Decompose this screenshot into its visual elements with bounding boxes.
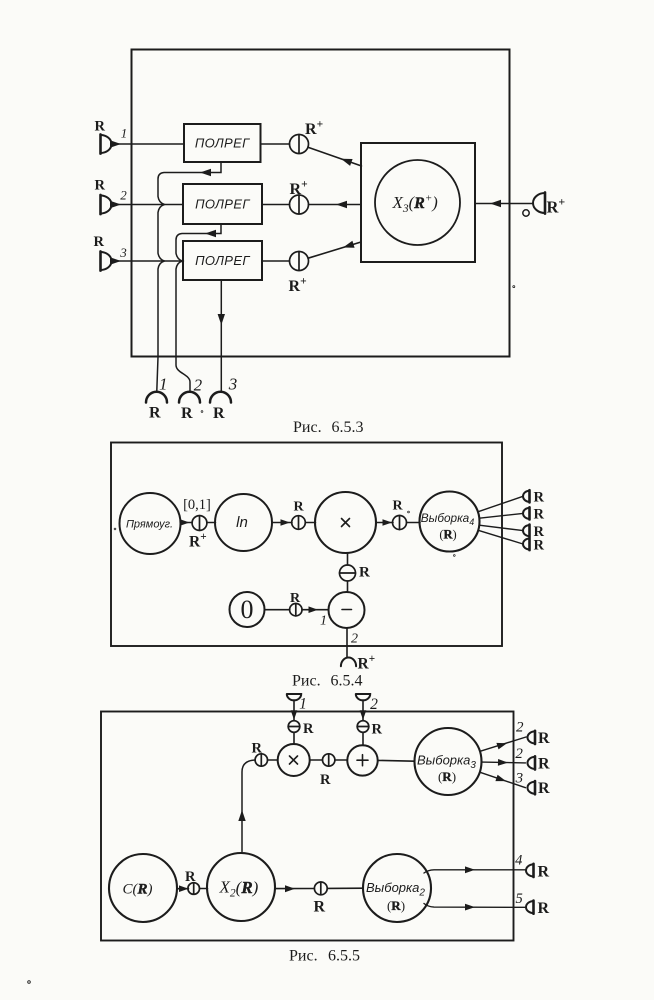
outer frame of fig 6.5.3 <box>132 50 510 357</box>
svg-text:R: R <box>314 899 326 916</box>
node circle o <box>523 210 529 216</box>
wire X2 up branch <box>242 760 255 852</box>
junction circle mid top <box>323 754 335 766</box>
svg-text:R: R <box>290 591 301 606</box>
svg-text:R: R <box>372 722 383 738</box>
svg-text:R: R <box>534 490 545 506</box>
junction circle after X2 <box>314 882 327 895</box>
block Vyborka3 circle <box>415 728 482 795</box>
junction circle T1 <box>288 721 300 733</box>
arrow feedback box2 <box>205 230 216 237</box>
wire fan4-1 <box>478 496 523 512</box>
wire fan3-1 <box>480 737 526 751</box>
junction circle minus-R <box>340 565 356 581</box>
wire T2 to plus <box>362 732 364 745</box>
svg-text:1: 1 <box>320 614 327 629</box>
output horn 2 bottom <box>179 392 200 403</box>
block minus circle <box>329 592 365 628</box>
svg-text:2: 2 <box>351 632 358 647</box>
svg-text:R: R <box>95 119 106 135</box>
block Vyborka2 circle <box>363 854 431 922</box>
output horn fan4-2 <box>523 507 530 519</box>
svg-text:R: R <box>538 755 550 772</box>
arrow fan2-2 <box>465 904 475 911</box>
block X3 circle <box>375 160 460 245</box>
wire to vyborka2 <box>327 887 363 889</box>
svg-text:R: R <box>185 869 196 885</box>
svg-text:3: 3 <box>119 245 127 260</box>
output horn fan3-3 <box>528 781 536 794</box>
speck between bottom R2 R3 <box>201 411 203 413</box>
svg-text:Выборка4: Выборка4 <box>421 511 474 527</box>
svg-text:3: 3 <box>515 771 524 787</box>
arrow row1 input <box>110 140 121 147</box>
svg-text:ln: ln <box>236 514 248 531</box>
block POLREG-3 <box>183 241 262 280</box>
junction circle 01 <box>192 516 207 531</box>
wire box3 to circle3 <box>262 260 290 262</box>
svg-text:R: R <box>181 405 193 422</box>
wire 01 to ln <box>207 522 216 524</box>
svg-text:3: 3 <box>228 375 238 394</box>
arrow ln out <box>281 519 291 526</box>
svg-text:R: R <box>303 721 314 737</box>
output horn fan4-4 <box>523 538 530 550</box>
svg-text:R: R <box>294 500 305 515</box>
svg-text:2: 2 <box>120 188 127 203</box>
input horn R row2 <box>101 195 112 214</box>
block plus circle <box>347 745 377 775</box>
block POLREG-1 <box>184 124 261 162</box>
svg-text:R: R <box>149 404 161 421</box>
junction circle left top <box>255 754 267 766</box>
wire fan2-2 <box>424 904 525 908</box>
wire X3 to circle2 <box>309 204 362 206</box>
junction circle row2 <box>290 195 309 214</box>
svg-text:R: R <box>95 178 106 194</box>
junction circle after zero <box>290 604 302 616</box>
arrow into frame 1 <box>291 710 298 720</box>
arrow fan2-1 <box>465 866 475 873</box>
arrow pryamoug out <box>180 519 190 526</box>
svg-text:R: R <box>359 565 370 581</box>
arrow into frame 2 <box>360 710 367 720</box>
svg-text:4: 4 <box>515 853 522 869</box>
svg-text:R: R <box>534 507 545 523</box>
output horn 3 bottom <box>210 392 231 403</box>
output horn fan2-1 <box>526 864 533 877</box>
svg-text:R: R <box>538 900 550 917</box>
arrow mult out <box>383 519 393 526</box>
wire mult out <box>376 522 393 524</box>
svg-text:[0,1]: [0,1] <box>183 497 211 513</box>
block multiply small circle <box>278 744 310 776</box>
speck above vyborka4 <box>408 511 410 513</box>
wire fan2-1 <box>424 870 525 873</box>
wire feedback box2 <box>176 224 221 391</box>
label plus sign <box>357 755 368 766</box>
arrow X2 out <box>285 885 295 892</box>
svg-text:2: 2 <box>515 746 523 762</box>
wire C out <box>177 888 189 890</box>
wire row2 input <box>112 204 184 206</box>
wire ln out <box>272 522 292 524</box>
wire to X2 <box>200 888 208 890</box>
wire X3 to circle1 <box>308 147 362 166</box>
block multiply circle <box>315 492 376 553</box>
arrow feedback box1 <box>200 169 211 176</box>
input horn R row1 <box>101 134 112 153</box>
svg-text:1: 1 <box>121 126 128 141</box>
wire mid to plus <box>335 759 347 761</box>
wire leftjunc to x <box>268 759 278 761</box>
arrow row2 input <box>110 201 121 208</box>
wire x to mid <box>310 759 323 761</box>
arrow fan3-2 <box>498 759 508 766</box>
svg-text:R: R <box>534 537 545 553</box>
svg-text:R: R <box>538 730 550 747</box>
outer frame of fig 6.5.5 <box>101 712 514 941</box>
wire box2 to circle2 <box>262 204 290 206</box>
arrow to circle2 <box>336 201 347 208</box>
svg-text:5: 5 <box>515 891 522 907</box>
label small x <box>290 756 298 764</box>
wire pryamoug out <box>181 522 193 524</box>
arrow up branch <box>238 810 245 821</box>
svg-text:ПОЛРЕГ: ПОЛРЕГ <box>195 136 250 151</box>
wire feedback box1 <box>157 162 221 391</box>
svg-text:2: 2 <box>516 720 524 736</box>
wire mult down <box>347 553 349 565</box>
svg-text:C(R): C(R) <box>123 882 153 898</box>
output horn fan3-1 <box>528 731 536 744</box>
svg-text:R: R <box>213 405 225 422</box>
label minus sign <box>342 609 352 611</box>
svg-text:R: R <box>252 741 263 757</box>
svg-text:1: 1 <box>159 375 168 394</box>
input horn 1 top <box>287 694 301 700</box>
label multiply x <box>342 519 350 527</box>
arrow row3 input <box>110 257 121 264</box>
arrow to circle1 <box>341 159 353 166</box>
wire box1 to circle1 <box>261 143 290 145</box>
svg-text:(R): (R) <box>439 528 456 542</box>
wire from horn2 <box>362 700 364 720</box>
junction circle after C <box>188 883 200 895</box>
svg-text:ПОЛРЕГ: ПОЛРЕГ <box>195 197 250 212</box>
wire to vyborka4 <box>407 522 421 524</box>
block ln circle <box>215 494 272 551</box>
junction circle after mult <box>393 516 407 530</box>
svg-text:(R): (R) <box>438 769 456 784</box>
svg-text:0: 0 <box>241 595 254 624</box>
svg-text:R: R <box>320 772 331 788</box>
junction circle row3 <box>290 252 309 271</box>
block Pryamoug circle <box>120 493 181 554</box>
svg-text:X2(R): X2(R) <box>219 878 259 900</box>
block X3 outer box <box>361 143 475 262</box>
block POLREG-2 <box>183 184 262 224</box>
arrow right input <box>490 200 501 207</box>
speck near frame1 <box>513 286 515 288</box>
input horn R row3 <box>101 251 112 270</box>
block C(R) circle <box>109 854 177 922</box>
wire right input <box>476 203 534 205</box>
svg-text:Прямоуг.: Прямоуг. <box>126 519 173 531</box>
wire from horn1 <box>293 700 295 720</box>
speck left of pryamoug <box>114 528 116 530</box>
output horn fan4-3 <box>523 525 530 537</box>
svg-text:R: R <box>538 780 550 797</box>
svg-text:1: 1 <box>299 696 307 713</box>
outer frame of fig 6.5.4 <box>111 443 502 647</box>
wire fan4-3 <box>479 525 523 530</box>
svg-text:(R): (R) <box>387 898 405 913</box>
arrow to minus <box>309 606 319 613</box>
arrow fan3-1 <box>496 743 507 750</box>
wire zero out <box>265 609 290 611</box>
junction circle row1 <box>290 135 309 154</box>
wire X3 to circle3 <box>308 242 361 258</box>
block zero circle <box>230 592 265 627</box>
wire box3 output <box>220 280 222 391</box>
junction circle after ln <box>292 516 306 530</box>
wire fan4-2 <box>479 513 523 518</box>
wire plus to vyborka3 <box>378 759 415 762</box>
wire T1 to mult <box>293 732 295 744</box>
svg-text:2: 2 <box>194 376 203 395</box>
svg-text:R: R <box>94 234 105 250</box>
wire to minus <box>347 581 349 592</box>
output horn fan2-2 <box>526 901 533 914</box>
wire fan3-3 <box>480 772 526 788</box>
wire fan4-4 <box>478 530 523 544</box>
input horn 2 top <box>356 694 370 700</box>
wire to mult <box>306 522 316 524</box>
arrow C out <box>179 885 189 892</box>
wire X2 out <box>275 888 314 890</box>
svg-text:R: R <box>538 863 550 880</box>
svg-text:R: R <box>393 499 404 514</box>
block X2(R) circle <box>207 853 275 921</box>
svg-text:ПОЛРЕГ: ПОЛРЕГ <box>195 253 250 268</box>
wire minus down <box>346 628 348 658</box>
block Vyborka4 circle <box>420 492 480 552</box>
wire row1 input <box>112 143 185 145</box>
wire row3 input <box>112 260 184 262</box>
arrow fan3-3 <box>495 775 506 781</box>
output horn R+ bottom <box>341 658 356 667</box>
speck page bottom left <box>28 981 31 984</box>
output horn fan4-1 <box>523 490 530 502</box>
speck below vyborka4 <box>453 555 455 557</box>
output horn fan3-2 <box>528 756 536 769</box>
wire to minus left <box>302 609 329 611</box>
wire fan3-2 <box>482 761 526 764</box>
output horn 1 bottom <box>146 392 167 403</box>
arrow to circle3 <box>343 241 355 248</box>
input horn R+ right <box>533 192 545 213</box>
svg-text:2: 2 <box>370 696 378 713</box>
junction circle T2 <box>357 721 369 733</box>
arrow box3 output <box>218 314 225 325</box>
